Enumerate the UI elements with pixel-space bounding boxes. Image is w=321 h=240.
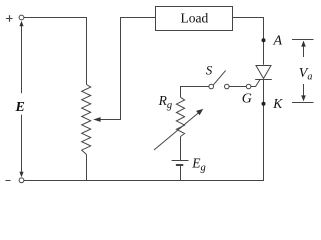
svg-text:S: S	[206, 63, 213, 78]
svg-text:A: A	[273, 34, 283, 49]
svg-text:Eg: Eg	[191, 155, 206, 173]
svg-text:Load: Load	[181, 11, 209, 26]
svg-text:K: K	[272, 96, 283, 111]
svg-text:Va: Va	[299, 66, 313, 82]
svg-text:E: E	[15, 100, 25, 115]
svg-text:Rg: Rg	[158, 93, 173, 111]
svg-text:G: G	[242, 92, 252, 107]
